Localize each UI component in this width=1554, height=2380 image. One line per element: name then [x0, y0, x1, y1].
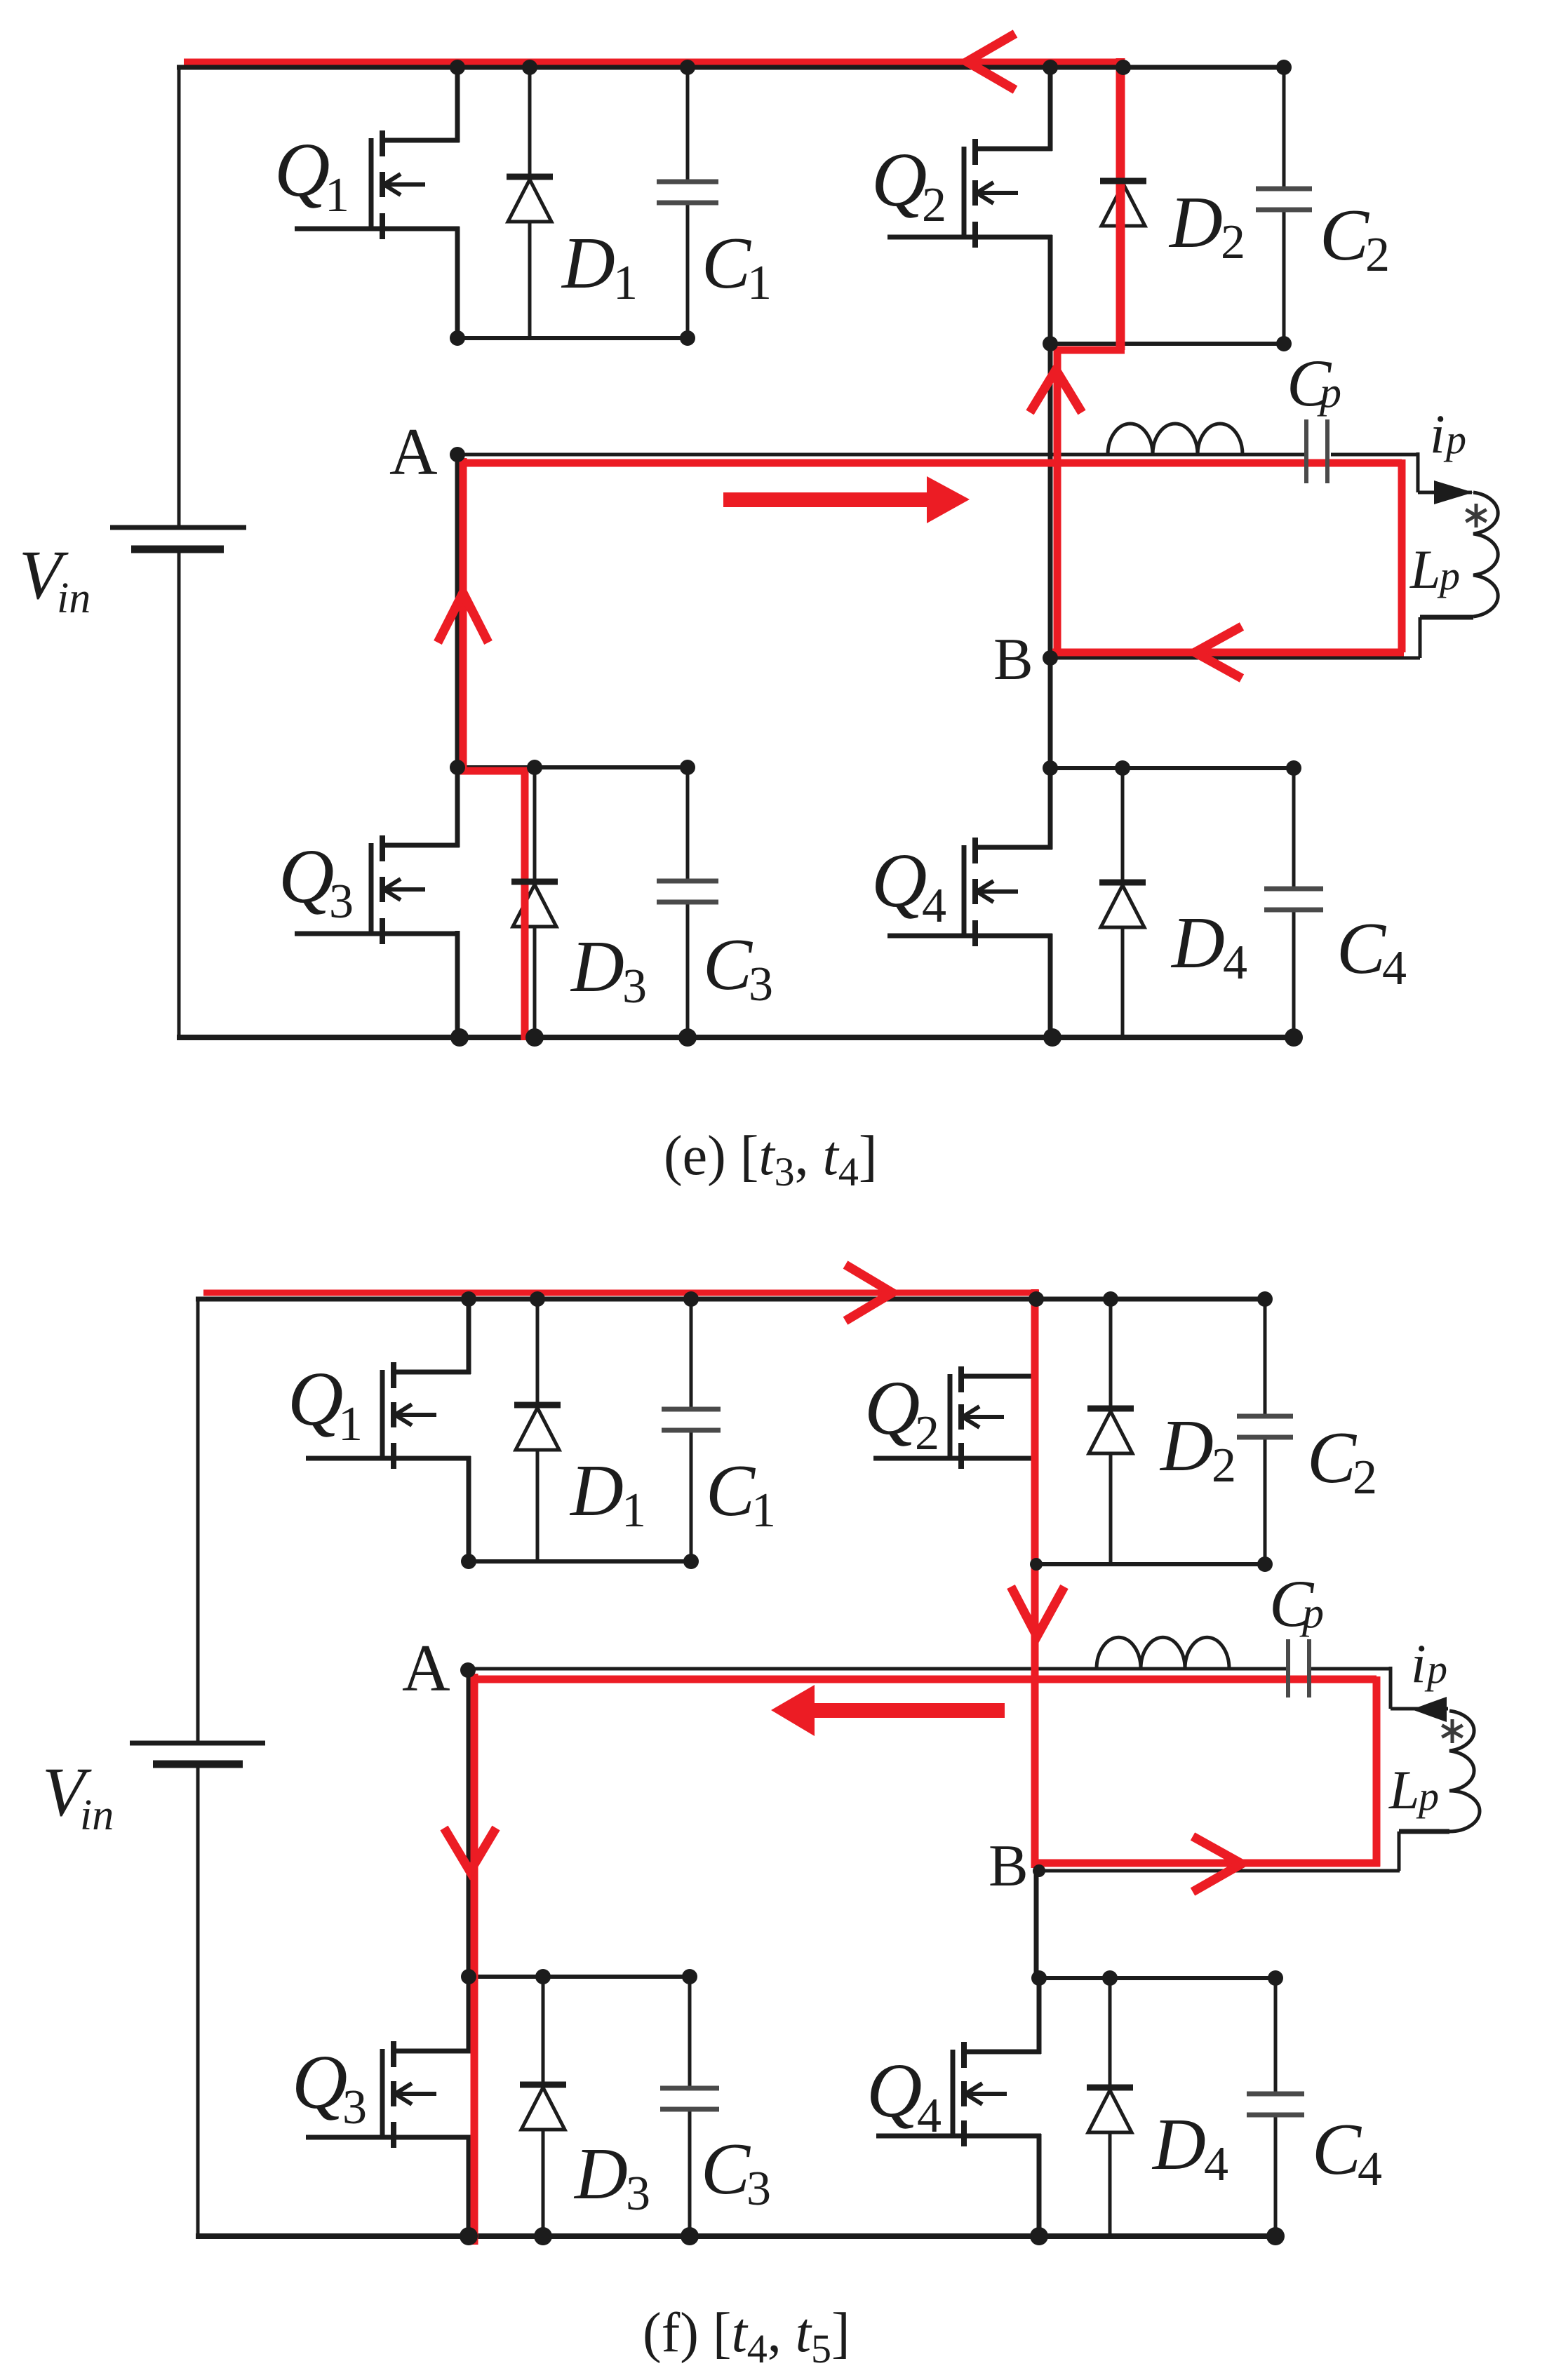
svg-text:C: C [702, 222, 752, 304]
svg-text:A: A [402, 1631, 450, 1705]
wire D1 (f) [536, 1299, 540, 1561]
svg-text:2: 2 [1221, 215, 1245, 269]
junction Q3 top-node left (f) [461, 1969, 476, 1984]
svg-text:1: 1 [325, 168, 349, 222]
wire D3 (e) [533, 767, 537, 1037]
svg-text:Q: Q [274, 127, 330, 213]
red current path down A leg (f) [471, 1674, 478, 2245]
junction C3 top-node (e) [680, 760, 695, 775]
svg-text:B: B [993, 626, 1033, 692]
wire Q4 top-node line (e) [1050, 766, 1296, 770]
wire node-B line (e) [1050, 657, 1420, 660]
svg-text:p: p [1416, 1773, 1439, 1819]
circuit (f) bottom rail wire (Vin- bus) [196, 2233, 1278, 2239]
svg-text:(f) [t4, t5]: (f) [t4, t5] [643, 2302, 850, 2372]
junction C2 top rail (f) [1257, 1291, 1273, 1307]
wire D2 (f) [1109, 1299, 1113, 1564]
junction C2 top rail (e) [1276, 60, 1292, 75]
red current path along node-A line (e) [460, 459, 1402, 467]
red current path through D2 (e) [1116, 58, 1125, 350]
transistor Q1 (f) [306, 1362, 471, 1469]
junction Q4 top-node left (f) [1031, 1970, 1047, 1986]
junction C3 bottom rail (f) [681, 2227, 699, 2245]
svg-text:p: p [1437, 553, 1460, 598]
red right arrowhead on top rail (f) [845, 1265, 892, 1321]
wire Q3 drain leg (e) [455, 767, 460, 847]
wire C4 lower (f) [1274, 2114, 1278, 2236]
wire node-A line after Cp (f) [1311, 1667, 1391, 1671]
svg-text:4: 4 [1223, 936, 1247, 990]
svg-text:Q: Q [864, 1365, 920, 1451]
svg-text:Q: Q [871, 838, 927, 923]
capacitor C1 (f) [662, 1409, 721, 1430]
wire C3 lower (e) [686, 901, 690, 1037]
red current path up B leg (e) [1054, 347, 1061, 655]
circuit (f) left rail wire lower (Vin-) [196, 1764, 200, 2238]
diode D3 (e) [511, 882, 558, 927]
transistor Q2 (e) [887, 139, 1052, 248]
svg-text:A: A [389, 415, 438, 489]
svg-text:D: D [1168, 181, 1223, 263]
diode D1 (e) [507, 177, 553, 222]
junction D3 top-node (f) [535, 1969, 551, 1984]
wire Q1 drain leg (e) [455, 67, 460, 142]
junction D4 top-node (e) [1115, 760, 1130, 776]
black arrow ip direction (e) [1434, 480, 1473, 504]
junction Q2-source node (e) [1043, 336, 1058, 351]
capacitor C2 (e) [1256, 189, 1312, 210]
wire Q4 source leg (f) [1037, 2134, 1042, 2238]
svg-text:C: C [1312, 2108, 1362, 2190]
transformer primary winding Lp (f) [1449, 1711, 1480, 1831]
svg-text:2: 2 [915, 1406, 939, 1460]
junction C1 bottom node (e) [680, 330, 695, 346]
junction C4 top-node (e) [1286, 760, 1301, 776]
red current path down A leg (e) [460, 458, 467, 770]
wire Q1 source leg to mid-node (f) [467, 1456, 471, 1564]
node A junction (e) [450, 447, 465, 462]
wire Q4 drain leg (e) [1048, 768, 1053, 849]
junction D3 bottom rail (e) [525, 1028, 544, 1047]
svg-text:i: i [1411, 1633, 1426, 1694]
wire C3 lower (f) [688, 2109, 692, 2236]
red right arrowhead on loop bottom (f) [1193, 1836, 1242, 1892]
transistor Q3 (f) [306, 2041, 471, 2148]
red current path loop bottom edge (e) [1052, 649, 1404, 657]
red thick arrow current direction A-to-B (e) [723, 476, 970, 523]
svg-text:4: 4 [1204, 2137, 1228, 2191]
battery Vin (e) [110, 527, 246, 549]
wire Q1 source leg to mid-node (e) [455, 227, 460, 341]
junction D4 top-node (f) [1102, 1970, 1118, 1986]
wire Q1 mid-node line (f) [469, 1559, 691, 1564]
svg-text:Q: Q [288, 1356, 343, 1441]
junction D3 bottom rail (f) [534, 2227, 552, 2245]
diode D4 (e) [1099, 882, 1146, 927]
svg-text:Q: Q [292, 2039, 347, 2125]
wire C1 upper (f) [690, 1299, 693, 1411]
wire Q3 source leg (f) [467, 2135, 471, 2238]
wire Q2 mid-node line (f) [1036, 1562, 1265, 1566]
junction Q3 top-node left (e) [450, 760, 465, 775]
wire transformer bottom to B line (e) [1420, 617, 1473, 658]
wire Q4 source leg (e) [1048, 934, 1053, 1040]
wire C4 upper (e) [1292, 768, 1296, 890]
diode D3 cathode bar overlay (e) [511, 879, 558, 885]
red path A leg to D3 (e) [460, 767, 528, 775]
wire step-down to transformer (f) [1391, 1667, 1448, 1709]
wire C2 upper (e) [1282, 67, 1286, 190]
svg-text:2: 2 [1365, 228, 1390, 282]
node B junction (e) [1043, 650, 1058, 666]
svg-text:4: 4 [1358, 2142, 1382, 2196]
svg-text:L: L [1388, 1759, 1419, 1820]
junction D1 top rail (e) [522, 60, 537, 75]
wire Q2 mid-node line (e) [1050, 342, 1284, 346]
svg-text:C: C [706, 1449, 756, 1531]
wire B leg through bridge (f) [1034, 1567, 1039, 1978]
wire Q2 source leg to mid-node (f) [1034, 1456, 1039, 1567]
capacitor Cp (f) [1288, 1639, 1309, 1697]
junction C1 top rail (e) [680, 60, 695, 75]
circuit (f) left rail wire upper (Vin+) [196, 1297, 200, 1743]
red current path on top rail (e) [184, 59, 1124, 65]
red down arrowhead on B leg (f) [1011, 1587, 1064, 1636]
svg-text:Q: Q [866, 2048, 922, 2133]
wire node-A line (e) [457, 453, 1304, 457]
svg-text:2: 2 [922, 178, 946, 232]
red current path loop bottom edge (f) [1037, 1860, 1380, 1867]
wire Q2 drain leg (e) [1048, 67, 1053, 151]
red current path loop right edge (f) [1373, 1676, 1381, 1867]
diode D2 (e) [1100, 181, 1146, 226]
junction C4 top-node (f) [1268, 1970, 1283, 1986]
junction Q1-source node (e) [450, 330, 465, 346]
junction C4 bottom rail (f) [1266, 2227, 1285, 2245]
red current path on top rail (f) [203, 1290, 1039, 1296]
junction C3 bottom rail (e) [678, 1028, 697, 1047]
transistor Q4 (e) [887, 838, 1052, 946]
transistor Q2 (f) [873, 1366, 1038, 1469]
node B junction (f) [1033, 1864, 1045, 1877]
wire Q3 top-node line (f) [467, 1975, 690, 1979]
circuit (e) left rail wire upper (Vin+) [177, 65, 181, 527]
transformer primary winding Lp (e) [1473, 492, 1498, 617]
junction C1 top rail (f) [683, 1291, 699, 1307]
junction D2 top rail (e) [1116, 60, 1131, 75]
svg-text:D: D [1170, 901, 1225, 983]
red thick arrow current direction B-to-A (f) [771, 1685, 1005, 1736]
svg-text:3: 3 [329, 875, 354, 929]
svg-text:in: in [80, 1791, 114, 1839]
wire Q1 drain leg (f) [467, 1299, 471, 1374]
svg-text:2: 2 [1212, 1439, 1236, 1493]
svg-text:p: p [1443, 417, 1466, 462]
junction Q3 bottom rail (e) [450, 1028, 469, 1047]
junction C2 bottom node (f) [1257, 1557, 1273, 1572]
junction Q3 bottom rail (f) [460, 2227, 478, 2245]
transistor Q1 (e) [295, 130, 460, 239]
svg-text:Q: Q [871, 137, 927, 222]
inductor Lr (f) [1097, 1637, 1229, 1669]
junction C3 top-node (f) [682, 1969, 697, 1984]
red up arrowhead on B leg (e) [1030, 370, 1082, 412]
wire Q4 drain leg (f) [1037, 1978, 1042, 2054]
capacitor Cp (e) [1306, 419, 1327, 483]
transistor Q3 (e) [295, 835, 460, 944]
svg-text:p: p [1424, 1646, 1447, 1692]
junction C1 bottom node (f) [683, 1554, 699, 1569]
junction D3 top-node (e) [527, 760, 542, 775]
svg-text:B: B [989, 1833, 1029, 1899]
red current path along node-A line (f) [471, 1676, 1377, 1683]
red current path down B leg (f) [1031, 1289, 1039, 1868]
red current path loop right edge (e) [1398, 459, 1406, 652]
red down arrowhead on A leg (f) [444, 1828, 496, 1871]
wire D1 (e) [528, 67, 532, 338]
capacitor C4 (e) [1264, 889, 1323, 910]
svg-text:C: C [703, 923, 753, 1005]
capacitor C4 (f) [1247, 2094, 1304, 2115]
capacitor C1 (e) [657, 182, 718, 203]
svg-text:D: D [570, 925, 624, 1007]
wire Q3 top-node line (e) [457, 765, 688, 769]
wire node-A line (f) [468, 1667, 1286, 1671]
wire C4 lower (e) [1292, 909, 1296, 1037]
wire C3 upper (f) [688, 1977, 692, 2090]
node A junction (f) [460, 1662, 476, 1678]
polarity mark asterisk (f) [1442, 1719, 1462, 1743]
red up arrowhead on A leg (e) [438, 593, 488, 643]
svg-text:C: C [1307, 1416, 1358, 1498]
svg-text:C: C [1337, 907, 1387, 989]
wire node-B line (f) [1039, 1869, 1400, 1873]
svg-text:3: 3 [622, 960, 647, 1014]
wire C1 lower (e) [686, 202, 690, 338]
diode D4 (f) [1087, 2087, 1133, 2132]
wire Q3 source leg (e) [455, 931, 460, 1040]
capacitor C3 (e) [657, 881, 718, 902]
svg-text:i: i [1430, 403, 1445, 464]
svg-text:L: L [1409, 539, 1440, 600]
red left arrowhead on top rail (e) [967, 34, 1015, 90]
svg-text:3: 3 [749, 957, 773, 1011]
svg-text:D: D [573, 2132, 628, 2214]
junction C4 bottom rail (e) [1285, 1028, 1303, 1047]
svg-text:D: D [561, 222, 615, 304]
wire C4 upper (f) [1274, 1978, 1278, 2095]
junction Q1 top rail (f) [461, 1291, 476, 1307]
junction Q4 top-node left (e) [1043, 760, 1058, 776]
junction Q4 bottom rail (f) [1030, 2227, 1048, 2245]
wire C1 lower (f) [690, 1430, 693, 1561]
red path mid-node D2 to Q2 leg (e) [1054, 347, 1125, 354]
svg-text:(e) [t3, t4]: (e) [t3, t4] [664, 1125, 878, 1195]
capacitor C3 (f) [660, 2088, 719, 2109]
svg-text:D: D [1159, 1404, 1214, 1486]
svg-text:1: 1 [751, 1484, 776, 1538]
wire Q2 drain leg (f) [1034, 1299, 1039, 1378]
junction Q1-source node (f) [461, 1554, 476, 1569]
circuit (f) top rail wire (Vin+ bus) [196, 1297, 1267, 1302]
circuit (e) bottom rail wire (Vin- bus) [177, 1035, 1296, 1040]
svg-text:3: 3 [626, 2167, 650, 2221]
wire B leg through bridge (e) [1048, 347, 1053, 770]
svg-text:2: 2 [1353, 1451, 1377, 1505]
wire C2 upper (f) [1264, 1299, 1267, 1418]
wire transformer bottom to B line (f) [1399, 1831, 1449, 1871]
wire D4 (f) [1108, 1978, 1112, 2236]
junction Q2-source node (f) [1030, 1558, 1043, 1571]
black arrow ip direction (f) [1412, 1697, 1447, 1722]
diode D1 (f) [514, 1405, 561, 1450]
diode D3 (f) [520, 2085, 566, 2130]
wire Q4 top-node line (f) [1039, 1976, 1278, 1980]
svg-text:p: p [1299, 1589, 1324, 1637]
svg-text:1: 1 [747, 256, 772, 310]
junction Q2 top rail (f) [1029, 1291, 1044, 1307]
battery Vin (f) [130, 1743, 265, 1764]
capacitor C2 (f) [1237, 1416, 1293, 1437]
svg-text:Q: Q [279, 833, 334, 919]
junction Q4 bottom rail (e) [1043, 1028, 1061, 1047]
wire D4 (e) [1121, 768, 1125, 1037]
wire A leg to Q3 (e) [455, 455, 460, 770]
wire A leg to Q3 (f) [467, 1669, 471, 1979]
wire node-A line after Cp (e) [1331, 453, 1419, 457]
svg-text:1: 1 [613, 256, 638, 310]
circuit (e) top rail wire (Vin+ bus) [177, 65, 1286, 70]
diode D2 (f) [1087, 1408, 1134, 1453]
transistor Q4 (f) [876, 2042, 1041, 2146]
red left arrowhead on loop bottom (e) [1195, 626, 1242, 678]
wire D3 (f) [542, 1977, 545, 2236]
wire Q3 drain leg (f) [467, 1977, 471, 2053]
wire C2 lower (f) [1264, 1437, 1267, 1564]
svg-text:1: 1 [338, 1397, 363, 1451]
wire C1 upper (e) [686, 67, 690, 183]
diode D2 cathode bar overlay (e) [1100, 178, 1146, 184]
circuit (e) left rail wire lower (Vin-) [177, 549, 181, 1040]
svg-text:D: D [1151, 2103, 1206, 2185]
red current path through D3 (e) [521, 771, 529, 1040]
junction D2 top rail (f) [1103, 1291, 1118, 1307]
junction D1 top rail (f) [530, 1291, 545, 1307]
svg-text:4: 4 [922, 879, 946, 933]
wire D2 (e) [1122, 67, 1125, 344]
svg-text:in: in [57, 574, 91, 622]
inductor Lr (e) [1108, 424, 1242, 455]
polarity mark asterisk (e) [1466, 504, 1486, 527]
svg-text:C: C [1320, 194, 1370, 276]
svg-text:3: 3 [342, 2080, 367, 2134]
junction Q1 top rail (e) [450, 60, 465, 75]
svg-text:4: 4 [1382, 941, 1407, 995]
svg-text:4: 4 [917, 2089, 942, 2143]
svg-text:1: 1 [622, 1484, 646, 1538]
wire Q2 source leg to mid-node (e) [1048, 235, 1053, 347]
svg-text:C: C [701, 2127, 751, 2210]
svg-text:p: p [1317, 369, 1341, 417]
wire Q1 mid-node line (e) [457, 336, 688, 340]
wire step-down to transformer (e) [1418, 452, 1472, 492]
junction C2 bottom node (e) [1276, 336, 1292, 351]
wire C3 upper (e) [686, 767, 690, 882]
svg-text:D: D [569, 1449, 624, 1531]
svg-text:3: 3 [746, 2162, 771, 2216]
wire C2 lower (e) [1282, 209, 1286, 344]
junction Q2 top rail (e) [1043, 60, 1058, 75]
